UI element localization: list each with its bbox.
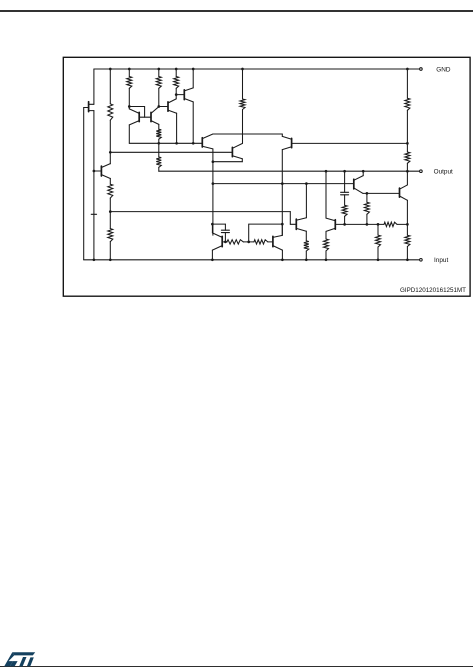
svg-text:Input: Input bbox=[434, 257, 448, 264]
svg-text:GND: GND bbox=[436, 66, 451, 73]
svg-text:GIPD120120161251MT: GIPD120120161251MT bbox=[400, 287, 466, 294]
svg-text:Output: Output bbox=[434, 169, 453, 176]
